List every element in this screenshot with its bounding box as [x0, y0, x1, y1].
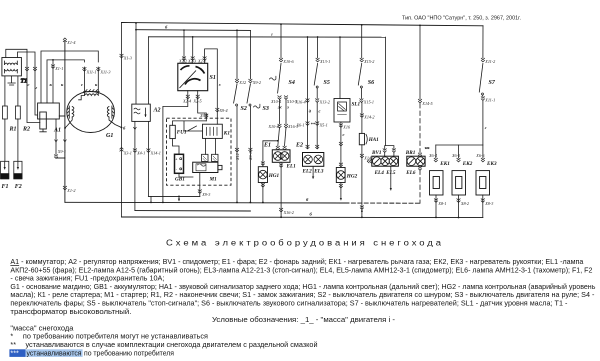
svg-text:Х2-2: Х2-2 — [178, 58, 187, 63]
svg-text:Х13-2: Х13-2 — [319, 100, 330, 105]
svg-text:Х1-3: Х1-3 — [123, 56, 132, 61]
svg-text:Х1-4: Х1-4 — [66, 40, 75, 45]
fuse FU1 — [170, 125, 176, 138]
svg-text:Х6-1: Х6-1 — [296, 123, 305, 128]
wire arrow on A1 output — [55, 140, 58, 143]
svg-text:Х15-2: Х15-2 — [363, 59, 374, 64]
wire: EK3 to bus3 — [482, 195, 484, 218]
connector X1-2 — [63, 186, 67, 190]
connector X9-2 lower — [249, 148, 253, 152]
svg-text:по требованию потребителя: по требованию потребителя — [84, 348, 174, 357]
connector on horn ground — [360, 206, 364, 210]
svg-text:Х16-2: Х16-2 — [283, 210, 294, 215]
wire: A2 to X4-1 to bus2 — [134, 121, 136, 210]
connector X2-1 — [203, 57, 207, 61]
connector X16 below SL1 — [339, 124, 343, 128]
connector X9-5 (top entry) — [204, 114, 208, 118]
connector X14-3 below HA1 — [360, 154, 364, 158]
highlighted footnote *** — [9, 349, 25, 357]
svg-text:Х2-1: Х2-1 — [197, 58, 206, 63]
svg-text:EL2: EL2 — [302, 169, 313, 175]
connector X11-3 — [96, 67, 100, 71]
svg-text:Х15-1: Х15-1 — [363, 100, 374, 105]
svg-text:М1: М1 — [209, 177, 218, 183]
svg-text:Х11-1: Х11-1 — [484, 98, 495, 103]
wire: EK3 riser — [482, 145, 484, 158]
ground (T1 core) — [8, 76, 15, 85]
starter M1 — [193, 162, 218, 172]
connector X5-1 — [315, 122, 319, 126]
voltage regulator A2 — [132, 104, 151, 121]
S3 pull cord symbol — [254, 104, 260, 108]
wire: HG1 tap to headlight hi-beam — [263, 141, 278, 166]
G1 top charging coil — [79, 90, 100, 100]
connector on wire c — [25, 67, 29, 71]
svg-text:Е1: Е1 — [263, 143, 271, 149]
connector X16-3 — [284, 124, 288, 128]
svg-text:T1: T1 — [21, 79, 28, 85]
connector E2 left pin — [306, 145, 310, 149]
engine stop switch S2 — [236, 30, 238, 79]
svg-text:г: г — [36, 85, 38, 90]
wire: EK1 riser — [435, 145, 437, 158]
wire: S7 to heater feed line — [436, 101, 483, 146]
G1 left lighting coil — [65, 106, 74, 128]
battery/starter unit dashed enclosure — [167, 118, 232, 185]
connector X2-3 — [191, 57, 195, 61]
wire: A2 top pin1 from line1/line2 — [135, 23, 137, 104]
wire: ground bus 1 (engine mass) — [65, 201, 345, 204]
connector on wire g — [33, 67, 37, 71]
wire: main top bus (line1) — [122, 23, 484, 26]
wire: second top bus (line2) — [136, 29, 250, 32]
svg-text:г: г — [485, 125, 487, 130]
wire: stop lamp feed from S5 — [316, 37, 318, 149]
wire: K1 to M1 links — [206, 138, 216, 154]
wire: GB1 ground to link — [179, 173, 193, 177]
svg-text:с: с — [343, 132, 345, 137]
connector X6-4 — [434, 158, 438, 162]
svg-text:Х9-4: Х9-4 — [219, 108, 228, 113]
wire: FU1 bottom to GB1 — [173, 139, 180, 155]
wire: X11-1 to G1 top coil left — [83, 67, 85, 95]
speedometer BV1 — [372, 156, 399, 166]
wire: BV1 mass arrow — [390, 166, 392, 190]
legend text block — [10, 257, 595, 349]
wire: S1 pin3 loop to K1 (z) — [205, 49, 218, 124]
commutator A1 — [38, 103, 60, 119]
wire: ground bus 3 (frame mass) — [122, 216, 483, 219]
svg-text:Х10-6: Х10-6 — [282, 59, 294, 64]
svg-text:Схема электрооборудования снег: Схема электрооборудования снегохода — [166, 239, 444, 248]
svg-text:ЕК2: ЕК2 — [462, 161, 473, 167]
svg-text:з: з — [286, 105, 289, 110]
wire: starter link drop to bus1 — [150, 196, 152, 202]
horn switch S6 — [361, 25, 363, 58]
wire arrow below A2 — [133, 127, 136, 130]
wire: FU1 top feed line — [173, 121, 207, 125]
connector X14-1 — [147, 149, 151, 153]
connector EL5 pin — [392, 149, 396, 153]
connector X9-4 on z wire — [215, 108, 219, 112]
wire: A1 output to X9-1 — [55, 119, 57, 155]
connector X10-4 — [278, 96, 282, 100]
svg-text:F2: F2 — [15, 184, 22, 190]
svg-text:г: г — [271, 32, 273, 37]
wire: speedometer lamp feed — [385, 37, 394, 149]
connector X3-1 — [120, 148, 124, 152]
wire: A1 pin2 feed — [47, 60, 84, 103]
wire: G1 right coil to X3-1 column — [109, 117, 122, 128]
svg-text:***: *** — [10, 348, 19, 357]
svg-text:**: ** — [311, 122, 316, 127]
svg-text:S5: S5 — [324, 80, 330, 86]
svg-text:Х9-5: Х9-5 — [199, 113, 208, 118]
starter solenoid windings — [202, 154, 209, 161]
svg-text:Х16: Х16 — [342, 125, 351, 130]
stop switch S5 — [314, 64, 317, 86]
wire: ground bus 2 — [135, 210, 251, 212]
wire: T1 to R1 — [4, 76, 6, 106]
svg-text:К1: К1 — [223, 131, 231, 137]
svg-text:S4: S4 — [289, 80, 295, 86]
svg-text:G1: G1 — [106, 133, 113, 139]
svg-text:Х6-4: Х6-4 — [428, 153, 437, 158]
svg-text:ЕК1: ЕК1 — [439, 161, 450, 167]
svg-text:Х2-4: Х2-4 — [182, 99, 191, 104]
svg-text:Х9-1: Х9-1 — [57, 149, 66, 154]
S4 pull symbol — [270, 76, 276, 80]
svg-text:Х10-4: Х10-4 — [268, 124, 279, 129]
svg-text:Х2-5: Х2-5 — [193, 99, 202, 104]
back-up horn HA1 — [359, 133, 364, 144]
connector HG2 top — [339, 163, 343, 167]
svg-text:с: с — [81, 82, 83, 87]
svg-text:FU1: FU1 — [177, 130, 187, 136]
tachometer BR1 — [407, 156, 425, 166]
wire: E1 to bus1 — [280, 162, 282, 217]
svg-text:Х14-1: Х14-1 — [150, 151, 161, 156]
svg-text:Х12: Х12 — [235, 153, 240, 161]
connector X8-1 — [434, 199, 438, 203]
svg-text:S2: S2 — [241, 106, 247, 112]
wire: A1 pin3 X1-1 — [52, 60, 54, 103]
wire: T1 primary feed c — [6, 49, 40, 122]
connector E1 right pin — [283, 146, 287, 150]
wire: A1 right stub — [59, 115, 65, 117]
wire: third top bus (line3) — [149, 36, 386, 38]
ignition lock S1 — [178, 63, 208, 90]
svg-text:Х8-2: Х8-2 — [460, 201, 469, 206]
connector X8-3 — [481, 199, 485, 203]
svg-text:SL1: SL1 — [352, 102, 361, 108]
resistor R1 (plug cap) — [3, 106, 8, 119]
svg-text:Х1-2: Х1-2 — [66, 188, 75, 193]
svg-text:BV1: BV1 — [371, 150, 382, 156]
wire: S1 bottom pin2 to FU1 feed — [198, 91, 207, 121]
wire: A2 to X14-1 to starter ground link — [147, 121, 149, 196]
svg-text:Х2-3: Х2-3 — [187, 58, 196, 63]
wire: HG1 to bus1 — [262, 183, 264, 203]
wire: S1 bottom pin1 to ground column — [163, 91, 188, 107]
oil level sensor SL1 — [339, 37, 341, 98]
engine stop switch S3 — [249, 30, 251, 79]
connector X11-1 — [83, 67, 87, 71]
svg-text:Х6-6: Х6-6 — [475, 153, 485, 158]
wire: R1 to F1 — [4, 119, 6, 161]
connector X16-4 on d wire — [306, 99, 310, 103]
svg-text:Х13-1: Х13-1 — [319, 59, 330, 64]
connector X14-2 — [360, 114, 364, 118]
resistor R2 (plug cap) — [16, 106, 21, 119]
connector HG2 bottom — [339, 184, 343, 188]
svg-text:Х11-2: Х11-2 — [484, 59, 495, 64]
svg-text:Х1-1: Х1-1 — [54, 66, 63, 71]
svg-text:EL6: EL6 — [405, 170, 416, 176]
tail light E2 — [303, 153, 324, 167]
wire: ground bus 1 dashed extension — [345, 202, 420, 204]
wire: T1 primary feed g — [18, 52, 38, 115]
svg-text:Х12: Х12 — [238, 80, 246, 85]
svg-text:Условные обозначения: _1_ - "м: Условные обозначения: _1_ - "масса" двиг… — [212, 315, 396, 324]
svg-text:Х9-3: Х9-3 — [201, 192, 210, 197]
svg-text:F1: F1 — [2, 184, 9, 190]
connector X15-2 — [360, 58, 364, 62]
K1 contact — [184, 121, 203, 131]
dashed wire: BR1 to bus1 — [419, 170, 421, 203]
wire: HA1 ground to bus3 — [361, 145, 363, 218]
connector X16-1 (speedo drive) — [367, 159, 371, 163]
connector X13-1 — [316, 58, 320, 62]
connector HG1 top — [261, 162, 265, 166]
svg-text:А2: А2 — [153, 108, 161, 114]
connector X10-4 lower — [278, 124, 282, 128]
ground (A1) — [40, 129, 47, 132]
battery GB1 — [175, 154, 184, 173]
connector X12 lower — [235, 148, 239, 152]
svg-text:S3: S3 — [263, 106, 269, 112]
svg-text:S1: S1 — [210, 75, 216, 81]
relay K1 — [203, 124, 223, 138]
wire: T1 to R2 — [17, 76, 19, 106]
heater EK2 — [452, 171, 466, 195]
connector X2-4 — [186, 95, 190, 99]
wire: SL1 to HG2 — [340, 122, 342, 167]
svg-text:Тип. ОАО "НПО "Сатурн", т. 250: Тип. ОАО "НПО "Сатурн", т. 250, з. 2967,… — [402, 16, 521, 22]
svg-text:Х10-4: Х10-4 — [270, 99, 281, 104]
connector X16-2 on headlamp ground — [279, 208, 283, 212]
connector X13-2 — [315, 99, 319, 103]
wire: S1 pin2 from line3 — [192, 37, 194, 63]
wire: M1 ground out — [199, 173, 201, 197]
svg-text:ЕК3: ЕК3 — [486, 161, 497, 167]
wire: tachometer feed from line1 — [419, 25, 421, 99]
heater switch S7 — [482, 26, 484, 58]
wire: bus1 left riser from X1-4 — [64, 42, 66, 203]
connector X14-5 — [418, 99, 422, 103]
wire: S1 ground column — [162, 107, 164, 203]
connector X11-1 lower — [481, 97, 485, 101]
svg-text:Х3-1: Х3-1 — [123, 151, 132, 156]
svg-text:Х11-3: Х11-3 — [100, 70, 111, 75]
connector X4-1 — [133, 149, 137, 153]
svg-text:Х14-5: Х14-5 — [421, 101, 432, 106]
svg-text:Х6-5: Х6-5 — [451, 153, 460, 158]
svg-text:с: с — [28, 82, 30, 87]
wire: R2 to F2 — [17, 119, 19, 161]
wire arrow on X1-4 riser — [63, 140, 66, 143]
svg-text:Х9-2: Х9-2 — [252, 80, 261, 85]
svg-text:EL3: EL3 — [313, 169, 324, 175]
connector E2 right pin — [315, 145, 319, 149]
svg-text:HG1: HG1 — [268, 173, 280, 179]
svg-text:НА1: НА1 — [368, 137, 379, 143]
svg-text:R2: R2 — [22, 127, 30, 133]
svg-text:S6: S6 — [368, 80, 374, 86]
svg-text:R1: R1 — [9, 127, 17, 133]
svg-text:EL4: EL4 — [374, 170, 385, 176]
wire: S6 to HA1 — [361, 102, 363, 133]
headlight switch S4 — [280, 24, 282, 58]
connector BR1 top — [418, 153, 422, 157]
svg-text:EL1: EL1 — [286, 164, 297, 170]
connector BR1 bottom — [418, 166, 422, 170]
connector X12 — [235, 79, 239, 83]
wire: X11-3 to G1 top coil right — [97, 67, 99, 95]
connector X1-4 — [63, 38, 67, 42]
wire: EK2 riser — [458, 145, 460, 158]
heater EK3 — [476, 171, 490, 195]
svg-text:Х8-1: Х8-1 — [437, 201, 446, 206]
connector E1 bottom — [279, 164, 283, 168]
connector X10-6 — [279, 58, 283, 62]
svg-text:с: с — [319, 109, 321, 114]
connector EL4 pin — [383, 149, 387, 153]
svg-text:Х14-2: Х14-2 — [363, 115, 374, 120]
connector X1-3 — [120, 54, 124, 58]
transformer T1 — [2, 58, 22, 76]
connector X9-3 — [198, 190, 202, 194]
svg-text:S7: S7 — [489, 80, 496, 86]
connector HG1 bottom — [261, 183, 265, 187]
wire: starter ground link — [148, 195, 199, 197]
connector X15-1 — [360, 99, 364, 103]
mass arrow (battery minus) — [178, 196, 180, 200]
svg-text:устанавливаются: устанавливаются — [27, 348, 82, 357]
wire: S1 pin1 from line2 — [183, 30, 185, 63]
connector E1 left pin — [276, 146, 280, 150]
svg-text:Х11-1: Х11-1 — [86, 70, 97, 75]
connector X2-5 — [196, 95, 200, 99]
connector X9-1 — [54, 155, 58, 159]
svg-text:з: з — [218, 82, 221, 87]
connector on HG2 wire — [339, 142, 343, 146]
connector X9-2 — [249, 79, 253, 83]
wire: EK2 to bus3 — [458, 195, 460, 218]
wire: tail lamp feed d — [307, 37, 309, 149]
svg-text:Х8-3: Х8-3 — [484, 201, 493, 206]
spark plug F2 — [14, 161, 22, 179]
magneto base G1 — [67, 92, 115, 133]
wire: A2 top pin2 from line3 — [147, 37, 149, 104]
connector X6-5 — [457, 158, 461, 162]
svg-text:Х4-1: Х4-1 — [136, 151, 145, 156]
mass arrow below E2 — [312, 166, 314, 178]
svg-text:Х16-4: Х16-4 — [295, 100, 306, 105]
indicator lamp HG2 (oil level) — [336, 168, 345, 183]
svg-text:GB1: GB1 — [175, 177, 185, 183]
svg-text:трансформатор высоковольтный.: трансформатор высоковольтный. — [10, 307, 131, 316]
headlamp E1 — [272, 150, 290, 163]
wire: X1-3 / X3-1 column — [121, 23, 123, 218]
G1 right coil — [107, 106, 121, 128]
connector X11-2 — [481, 58, 485, 62]
wire: HG2 ground to bus1 — [340, 183, 342, 200]
svg-text:А1: А1 — [53, 128, 61, 134]
heater EK1 — [430, 171, 444, 195]
dashed wire: X14-5 to BR1 — [419, 104, 421, 153]
svg-text:Е2: Е2 — [295, 143, 303, 149]
connector X2-2 — [182, 57, 186, 61]
svg-text:HG2: HG2 — [346, 174, 358, 180]
wire: X9-1 tie — [56, 157, 65, 159]
svg-text:Х5-1: Х5-1 — [319, 123, 328, 128]
indicator lamp HG1 (high beam) — [258, 167, 267, 183]
connector X8-2 — [457, 199, 461, 203]
svg-text:EL5: EL5 — [385, 170, 396, 176]
connector X10-5 — [284, 96, 288, 100]
svg-text:ж: ж — [278, 105, 283, 110]
svg-text:Х9-1: Х9-1 — [248, 152, 253, 161]
wire: A1 pin1 feed — [41, 51, 98, 103]
wire: EK1 to bus3 — [435, 195, 437, 217]
svg-text:BR1: BR1 — [405, 150, 416, 156]
connector X6-6 — [481, 158, 485, 162]
connector X6-1 — [306, 122, 310, 126]
connector X1-1 — [51, 65, 55, 69]
spark plug F1 — [1, 161, 9, 179]
